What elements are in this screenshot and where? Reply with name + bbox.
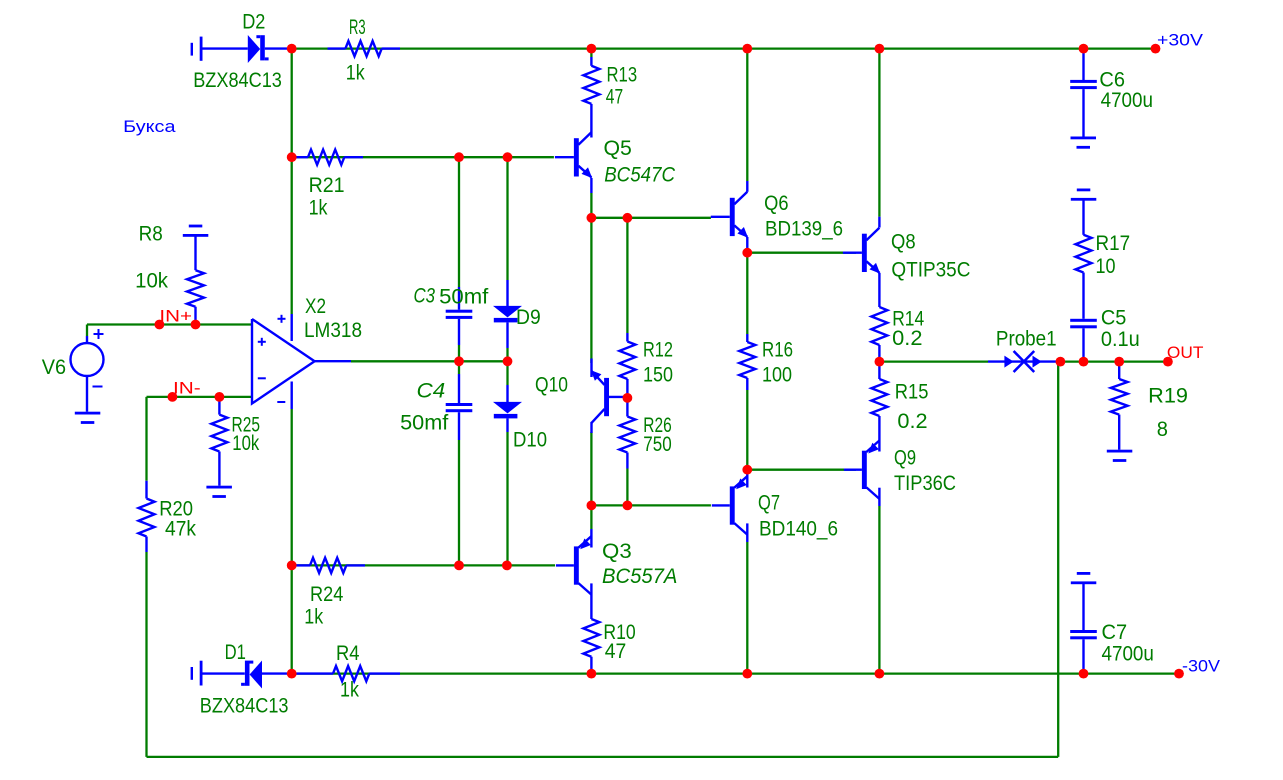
- svg-text:R13: R13: [607, 64, 638, 87]
- label R8: [139, 222, 163, 245]
- label R4: [336, 642, 360, 665]
- capacitor C6: [1070, 49, 1097, 137]
- wire D10 column bottom: [506, 432, 508, 565]
- resistor R17 with top terminal: [1071, 189, 1097, 319]
- transistor Q3: [556, 529, 592, 619]
- transistor Q7: [712, 470, 748, 542]
- svg-text:8: 8: [1157, 418, 1168, 441]
- svg-text:TIP36C: TIP36C: [894, 472, 956, 495]
- svg-text:V6: V6: [42, 356, 66, 379]
- wire IN- corner down to R20: [145, 397, 147, 481]
- label R3 value 1k: [346, 61, 365, 84]
- wire OUT node down feedback: [1057, 362, 1059, 757]
- svg-text:1k: 1k: [309, 197, 328, 220]
- svg-text:Q5: Q5: [604, 137, 632, 160]
- svg-text:BZX84C13: BZX84C13: [200, 694, 289, 717]
- resistor R8 with top terminal: [183, 225, 209, 325]
- label C5 value 0.1u: [1101, 328, 1140, 351]
- wire D9 column top: [506, 157, 508, 280]
- label R14 value 0.2: [892, 327, 922, 350]
- label R15 value 0.2: [897, 410, 927, 433]
- label R10: [603, 621, 635, 644]
- resistor R15: [871, 362, 887, 452]
- label R16 value 100: [762, 364, 792, 387]
- svg-text:IN-: IN-: [173, 379, 201, 398]
- label R16: [762, 339, 793, 362]
- svg-text:R19: R19: [1148, 385, 1188, 408]
- label C6 value 4700u: [1101, 89, 1153, 112]
- svg-text:Probe1: Probe1: [996, 328, 1057, 351]
- capacitor C4: [446, 374, 473, 440]
- svg-text:4700u: 4700u: [1101, 89, 1153, 112]
- label R26 value 750: [643, 433, 671, 456]
- wire left rail to op-amp V+: [291, 157, 293, 314]
- wire R16 to Q9 base row: [746, 390, 748, 470]
- svg-text:47: 47: [605, 640, 627, 663]
- wire left rail lower (R24 row to D1 junction): [291, 565, 293, 673]
- wire Q10 to Q3 node: [590, 432, 592, 505]
- net label OUT: [1167, 343, 1204, 362]
- wire OUT row right: [1060, 360, 1168, 362]
- svg-text:C3: C3: [414, 284, 436, 307]
- op-amp X2: [252, 314, 351, 409]
- svg-text:R4: R4: [336, 642, 360, 665]
- svg-text:50mf: 50mf: [400, 411, 448, 434]
- label R26: [643, 414, 671, 437]
- label C4 value 50mf: [400, 411, 448, 434]
- resistor R25: [211, 397, 227, 486]
- label R20: [159, 498, 193, 521]
- label X2 model LM318: [304, 319, 362, 342]
- label R19: [1148, 385, 1188, 408]
- wire Q9 base row: [747, 469, 856, 471]
- svg-text:47k: 47k: [165, 518, 196, 541]
- wire Q9 collector to rail: [878, 506, 880, 674]
- wire Q5 emitter lead down: [590, 193, 592, 218]
- label R4 value 1k: [340, 679, 359, 702]
- resistor R21: [297, 150, 364, 165]
- capacitor C3: [446, 287, 473, 345]
- svg-text:BD139_6: BD139_6: [765, 217, 843, 240]
- svg-text:+30V: +30V: [1157, 31, 1204, 50]
- svg-text:Q9: Q9: [894, 447, 916, 470]
- label R21 value 1k: [309, 197, 328, 220]
- svg-text:C7: C7: [1102, 621, 1128, 644]
- transistor Q6: [711, 181, 748, 249]
- wire rail to Q8 collector: [878, 49, 880, 217]
- capacitor C7 with top terminal: [1070, 572, 1097, 674]
- svg-text:750: 750: [643, 433, 671, 456]
- svg-text:D2: D2: [242, 10, 265, 33]
- label R14: [892, 308, 924, 331]
- svg-text:0.1u: 0.1u: [1101, 328, 1140, 351]
- label R21: [309, 174, 345, 197]
- wire R20 to feedback: [145, 552, 147, 757]
- svg-text:D10: D10: [513, 429, 547, 452]
- wire op-amp output row: [351, 360, 508, 362]
- label R17 value 10: [1096, 255, 1116, 278]
- wire bottom -30V rail: [292, 672, 1179, 674]
- label Q3 model BC557A: [602, 565, 677, 588]
- wire C3 column top: [458, 157, 460, 287]
- label R13 value 47: [606, 85, 623, 108]
- label V6: [42, 356, 66, 379]
- label Q5: [604, 137, 632, 160]
- svg-text:R21: R21: [309, 174, 345, 197]
- svg-text:150: 150: [643, 364, 673, 387]
- label R12 value 150: [643, 364, 673, 387]
- label D2 value BZX84C13: [193, 69, 282, 92]
- transistor Q5: [555, 132, 592, 193]
- svg-text:4700u: 4700u: [1102, 643, 1154, 666]
- ground below R25: [206, 486, 232, 498]
- label Q8: [891, 230, 916, 253]
- wire op-amp V- to R24 row: [291, 409, 293, 565]
- svg-text:10k: 10k: [135, 270, 168, 293]
- label D2: [242, 10, 265, 33]
- wire C4 column bottom: [458, 440, 460, 565]
- wire Q7 collector to rail: [746, 542, 748, 674]
- svg-text:R3: R3: [349, 16, 366, 39]
- wire R12 column top: [626, 218, 628, 333]
- wire rail to Q6 collector: [746, 49, 748, 181]
- wire node to C4: [458, 361, 460, 374]
- label Probe1: [996, 328, 1057, 351]
- wire V6 top lead: [86, 325, 88, 337]
- svg-text:50mf: 50mf: [439, 285, 488, 308]
- label X2: [305, 295, 326, 318]
- label C6: [1099, 69, 1125, 92]
- wire IN+ row: [87, 323, 252, 325]
- net label -30V: [1182, 656, 1221, 675]
- label D10: [513, 429, 547, 452]
- label Q7: [758, 491, 780, 514]
- label R25 value 10k: [232, 432, 259, 455]
- svg-text:1k: 1k: [340, 679, 359, 702]
- label R25: [232, 413, 261, 436]
- svg-text:R16: R16: [762, 339, 793, 362]
- svg-text:R15: R15: [895, 381, 929, 404]
- resistor R16: [739, 334, 755, 390]
- wire D9 to node: [506, 348, 508, 361]
- wire node to D10: [506, 361, 508, 385]
- label C5: [1101, 307, 1127, 330]
- wire Q3 node down: [590, 505, 592, 529]
- svg-text:10k: 10k: [232, 432, 259, 455]
- label Q6: [764, 192, 788, 215]
- diode D10: [493, 385, 522, 432]
- label R24: [310, 583, 344, 606]
- svg-text:0.2: 0.2: [892, 327, 922, 350]
- svg-text:C4: C4: [417, 380, 446, 403]
- svg-text:Q3: Q3: [602, 540, 632, 563]
- label Q6 model BD139_6: [765, 217, 843, 240]
- label R15: [895, 381, 929, 404]
- svg-text:D1: D1: [225, 641, 246, 664]
- label R12: [643, 339, 673, 362]
- resistor R10: [583, 619, 599, 674]
- wire OUT row left: [879, 360, 988, 362]
- svg-text:X2: X2: [305, 295, 326, 318]
- label D9: [516, 306, 541, 329]
- label C7: [1102, 621, 1128, 644]
- label C3: [414, 284, 436, 307]
- label Q9: [894, 447, 916, 470]
- voltage source V6: [71, 329, 104, 412]
- svg-text:BC557A: BC557A: [602, 565, 677, 588]
- wire R21 row: [292, 156, 554, 158]
- svg-text:R12: R12: [643, 339, 673, 362]
- svg-text:1k: 1k: [304, 605, 323, 628]
- svg-text:10: 10: [1096, 255, 1116, 278]
- label R10 value 47: [605, 640, 627, 663]
- capacitor C5: [1070, 319, 1097, 362]
- label R3: [349, 16, 366, 39]
- resistor R24: [297, 558, 366, 573]
- svg-text:47: 47: [606, 85, 623, 108]
- svg-text:Q7: Q7: [758, 491, 780, 514]
- svg-text:IN+: IN+: [159, 307, 192, 326]
- svg-text:-30V: -30V: [1182, 656, 1221, 675]
- svg-text:Q10: Q10: [535, 374, 568, 397]
- label Q8 model QTIP35C: [891, 258, 970, 281]
- transistor Q8: [843, 217, 880, 307]
- zener diode D2: [191, 35, 287, 63]
- svg-text:Букса: Букса: [123, 117, 176, 136]
- label Q10: [535, 374, 568, 397]
- svg-text:OUT: OUT: [1167, 343, 1204, 362]
- probe Probe1: [988, 351, 1060, 372]
- wire top +30V rail: [292, 47, 1156, 49]
- label R24 value 1k: [304, 605, 323, 628]
- ground below V6: [75, 412, 101, 424]
- svg-text:R8: R8: [139, 222, 163, 245]
- wire Q6 node to R16: [746, 253, 748, 334]
- svg-text:1k: 1k: [346, 61, 365, 84]
- label R17: [1096, 232, 1131, 255]
- svg-text:BD140_6: BD140_6: [759, 518, 838, 541]
- svg-text:LM318: LM318: [304, 319, 362, 342]
- svg-text:QTIP35C: QTIP35C: [891, 258, 970, 281]
- label C4: [417, 380, 446, 403]
- label D1: [225, 641, 246, 664]
- label C7 value 4700u: [1102, 643, 1154, 666]
- resistor R12: [619, 333, 635, 398]
- svg-text:D9: D9: [516, 306, 541, 329]
- wire C3 to node: [458, 345, 460, 361]
- wire Q3 row: [591, 504, 711, 506]
- svg-text:BC547C: BC547C: [604, 164, 676, 187]
- label R19 value 8: [1157, 418, 1168, 441]
- wire rail to R13: [590, 49, 592, 57]
- text note Buksa: [123, 117, 176, 136]
- svg-text:Q6: Q6: [764, 192, 788, 215]
- svg-text:Q8: Q8: [891, 230, 916, 253]
- label Q7 model BD140_6: [759, 518, 838, 541]
- net label +30V: [1157, 31, 1204, 50]
- svg-text:R17: R17: [1096, 232, 1131, 255]
- wire IN- row: [147, 396, 253, 398]
- label R20 value 47k: [165, 518, 196, 541]
- resistor R3: [328, 41, 401, 56]
- zener diode D1: [191, 661, 287, 689]
- wire left rail upper (D2 junction to R21 row): [291, 49, 293, 158]
- svg-text:100: 100: [762, 364, 792, 387]
- svg-text:C5: C5: [1101, 307, 1127, 330]
- diode D9: [493, 280, 522, 348]
- resistor R26: [619, 398, 635, 469]
- resistor R4: [297, 666, 401, 681]
- resistor R20: [139, 481, 155, 552]
- svg-text:R24: R24: [310, 583, 344, 606]
- resistor R19: [1111, 362, 1128, 450]
- label R13: [607, 64, 638, 87]
- wire feedback bottom: [147, 756, 1059, 758]
- resistor R13: [583, 57, 599, 138]
- label Q3: [602, 540, 632, 563]
- net label IN+: [159, 307, 192, 326]
- label C3 value 50mf: [439, 285, 488, 308]
- wire Q6 emitter to Q8 base row: [747, 252, 856, 254]
- label D1 value BZX84C13: [200, 694, 289, 717]
- wire R24 row: [292, 564, 555, 566]
- ground below R19: [1107, 450, 1133, 462]
- resistor R14: [871, 307, 887, 362]
- label Q9 model TIP36C: [894, 472, 956, 495]
- label R8 value 10k: [135, 270, 168, 293]
- wire Q5 node to Q10: [590, 218, 592, 363]
- transistor Q9: [844, 441, 880, 507]
- wire R26 to Q3 row: [626, 469, 628, 506]
- label Q5 model BC547C: [604, 164, 676, 187]
- transistor Q10: [591, 359, 628, 434]
- ground below C6: [1071, 137, 1097, 149]
- svg-text:0.2: 0.2: [897, 410, 927, 433]
- net label IN-: [173, 379, 201, 398]
- svg-text:BZX84C13: BZX84C13: [193, 69, 282, 92]
- wire Q5 emitter to Q6 base row: [591, 217, 711, 219]
